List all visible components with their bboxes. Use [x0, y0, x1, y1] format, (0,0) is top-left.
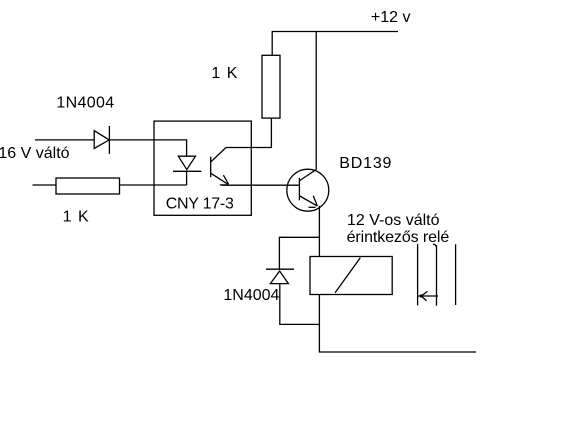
svg-text:BD139: BD139 — [339, 155, 392, 172]
wire: resistor bottom to opto collector — [226, 118, 272, 147]
diode 1N4004 input (triangle) — [94, 131, 109, 149]
optocoupler CNY 17-3 box — [154, 121, 251, 215]
relay contact arrow head — [421, 291, 427, 296]
wire: emitter down to relay top — [318, 206, 320, 257]
transistor emitter arrow barbs — [313, 196, 317, 206]
wire: AC input top — [35, 139, 94, 141]
LED cathode bar — [173, 170, 201, 172]
svg-text:1N4004: 1N4004 — [56, 95, 114, 112]
wire: opto emitter to transistor base — [222, 184, 299, 186]
svg-text:+12 v: +12 v — [371, 9, 411, 26]
svg-text:CNY 17-3: CNY 17-3 — [166, 195, 234, 212]
wire: LED cathode down — [186, 171, 188, 185]
wire: rail down to resistor 1K top — [271, 32, 273, 56]
transistor collector slant — [300, 170, 316, 181]
resistor 1K horizontal (input) — [56, 178, 120, 194]
transistor BD139 circle — [287, 169, 329, 211]
relay coil box — [310, 257, 392, 295]
transistor base bar — [298, 178, 300, 201]
wire: relay bottom to ground rail — [319, 295, 476, 353]
wire: resistor to optocoupler LED cathode — [120, 184, 187, 186]
transistor emitter slant — [300, 196, 318, 206]
flyback diode 1N4004 (triangle up) — [270, 271, 288, 284]
diode 1N4004 input cathode bar — [108, 126, 110, 154]
phototransistor emitter arrow barbs — [223, 175, 228, 184]
resistor 1K vertical (collector load) — [262, 55, 280, 118]
phototransistor emitter slant — [211, 173, 228, 184]
wire: diode cathode to optocoupler box — [109, 139, 154, 141]
wire: AC input bottom — [33, 184, 57, 186]
relay contact arrow line — [418, 295, 438, 297]
svg-text:12 V-os váltó: 12 V-os váltó — [347, 212, 440, 229]
svg-text:16 V váltó: 16 V váltó — [0, 145, 70, 162]
relay contact line 2 — [436, 245, 438, 306]
svg-text:1 K: 1 K — [63, 209, 90, 226]
wire: branch to flyback diode — [279, 237, 319, 269]
svg-text:1N4004: 1N4004 — [223, 287, 279, 304]
phototransistor base bar — [210, 157, 212, 178]
relay contact line 1 — [417, 244, 419, 306]
relay contact line 3 — [455, 244, 457, 305]
flyback diode cathode bar — [266, 268, 294, 270]
relay contact line 2 top hook — [433, 244, 437, 247]
relay coil diagonal — [335, 258, 360, 293]
svg-text:1 K: 1 K — [211, 65, 238, 82]
wire: +12v rail horizontal — [272, 31, 398, 33]
wire: flyback diode down and to emitter line — [280, 284, 320, 325]
phototransistor collector slant — [211, 148, 226, 163]
wire: into opto LED anode — [154, 140, 187, 156]
wire: +12v rail down to transistor collector — [315, 32, 317, 170]
LED inside optocoupler (triangle down) — [178, 156, 195, 169]
